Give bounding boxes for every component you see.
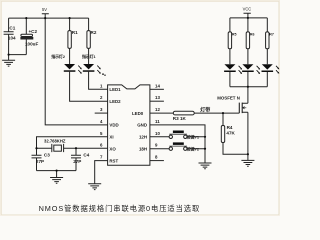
wire pin9 to button S2 <box>150 148 169 150</box>
svg-text:GND: GND <box>137 123 147 128</box>
power 5V symbol <box>42 14 49 18</box>
svg-text:NMOS管数据规格门串联电源0电压适当选取: NMOS管数据规格门串联电源0电压适当选取 <box>39 204 201 213</box>
svg-text:R6: R6 <box>250 32 255 36</box>
node crystal left <box>35 147 37 149</box>
resistor R1 <box>68 18 71 64</box>
pushbutton S2 <box>169 142 187 150</box>
pin numbers right <box>155 83 160 159</box>
resistor R6 <box>246 18 249 64</box>
wire LED bottom rail <box>230 86 267 88</box>
pin 13 stub <box>150 100 164 102</box>
wire crystal rail XO pin6 <box>37 147 108 149</box>
svg-text:C4: C4 <box>83 153 89 158</box>
wire pin11 to ground rail <box>150 125 205 163</box>
chip pin names left <box>109 87 121 163</box>
wire crystal ground rail <box>37 171 77 178</box>
power VCC symbol <box>244 13 251 18</box>
wire RST pin7 to ground <box>95 161 108 184</box>
node source R4 ground <box>247 153 249 155</box>
wire VCC rail <box>230 17 267 19</box>
resistor R3 <box>173 111 194 115</box>
chip pin names right <box>132 111 147 152</box>
svg-text:XI: XI <box>109 135 113 140</box>
node crystal C4 <box>75 147 77 149</box>
pin 14 stub <box>150 88 164 90</box>
wire LED D3 to bottom rail <box>229 72 231 87</box>
node VCC rail <box>247 17 249 19</box>
svg-text:VDD: VDD <box>109 123 118 128</box>
wire source vertical <box>247 112 249 154</box>
svg-text:LED2: LED2 <box>109 99 121 104</box>
mark U1 <box>102 73 106 75</box>
svg-text:R4: R4 <box>227 125 233 130</box>
wire LED D5 to bottom rail <box>266 72 268 87</box>
ground (crystal) <box>50 178 63 184</box>
resistor R4 <box>221 126 224 143</box>
pin 8 stub <box>150 160 164 162</box>
svg-text:104: 104 <box>8 35 16 40</box>
wire R3 to gate <box>194 112 239 114</box>
resistor R7 <box>266 18 269 64</box>
svg-text:R2: R2 <box>91 30 97 35</box>
LED D4 <box>242 64 260 74</box>
capacitor C2 <box>21 18 33 55</box>
wire button S1 to ground rail <box>187 136 205 138</box>
svg-text:18H: 18H <box>139 146 147 151</box>
svg-text:R5: R5 <box>232 32 237 36</box>
svg-text:27P: 27P <box>36 159 44 164</box>
capacitor C1 <box>4 18 14 55</box>
svg-text:C1: C1 <box>9 25 15 30</box>
wire LED D2 cathode to pin1 <box>89 72 108 90</box>
ground (C1 C2) <box>2 55 15 67</box>
svg-text:VCC: VCC <box>243 6 252 11</box>
crystal Y1 <box>52 144 64 152</box>
svg-text:12H: 12H <box>139 135 147 140</box>
chip U1 body <box>108 85 150 165</box>
ground (RST) <box>88 184 101 190</box>
node drain rail <box>247 86 249 88</box>
svg-text:MOSFET N: MOSFET N <box>217 96 240 101</box>
pin 3 stub <box>95 112 108 114</box>
svg-text:12: 12 <box>155 107 160 112</box>
LED D3 <box>224 64 242 74</box>
pin numbers left <box>100 83 103 159</box>
wire drain vertical <box>247 87 249 104</box>
capacitor C3 <box>32 155 42 170</box>
LED D1 indicator <box>64 64 82 74</box>
svg-text:按键Y1: 按键Y1 <box>187 134 200 139</box>
svg-text:13: 13 <box>155 95 160 100</box>
LED D5 <box>262 64 280 73</box>
wire R4 bottom to source node <box>223 143 248 155</box>
pushbutton S1 <box>169 131 187 139</box>
svg-text:27P: 27P <box>73 159 81 164</box>
wire LED D4 to bottom rail <box>247 72 249 87</box>
wire pin12 to R3 <box>150 112 173 114</box>
ground (MOSFET source) <box>241 154 254 166</box>
svg-text:R3 1K: R3 1K <box>173 116 187 121</box>
node rail-5V <box>44 17 46 19</box>
svg-text:+C2: +C2 <box>29 29 38 34</box>
svg-text:14: 14 <box>155 83 160 88</box>
svg-text:LED0: LED0 <box>132 111 144 116</box>
node button S1 ground <box>204 136 206 138</box>
svg-text:指示灯2: 指示灯2 <box>51 53 65 59</box>
svg-text:5V: 5V <box>42 7 47 12</box>
svg-text:灯带: 灯带 <box>200 107 210 114</box>
svg-text:指示灯1: 指示灯1 <box>82 53 96 59</box>
node crystal ground <box>56 170 58 172</box>
wire C1-C2 join <box>9 54 27 56</box>
svg-text:32.768KHZ: 32.768KHZ <box>44 138 66 143</box>
svg-text:XO: XO <box>109 146 116 151</box>
svg-text:R7: R7 <box>269 32 274 36</box>
svg-text:RST: RST <box>109 158 118 163</box>
wire pin10 to button S1 <box>150 136 169 138</box>
svg-text:LED1: LED1 <box>109 87 121 92</box>
svg-text:11: 11 <box>155 119 160 124</box>
capacitor C4 <box>71 148 81 170</box>
LED D2 indicator <box>83 64 101 74</box>
svg-text:C3: C3 <box>44 153 50 158</box>
node button S2 ground <box>204 148 206 150</box>
ground (buttons) <box>199 163 212 169</box>
resistor R2 <box>87 18 90 64</box>
wire XI pin5 <box>37 137 108 155</box>
wire LED D1 cathode to pin2 <box>70 72 108 101</box>
border frame <box>0 0 280 1</box>
svg-text:100uF: 100uF <box>25 41 38 46</box>
svg-text:R1: R1 <box>72 30 78 35</box>
node C1-C2 <box>8 54 10 56</box>
wire 5V rail <box>9 17 89 19</box>
wire 5V to VDD <box>45 18 107 125</box>
resistor R5 <box>228 18 231 64</box>
node R4 gate <box>222 112 224 114</box>
svg-text:按键Y2: 按键Y2 <box>187 146 200 151</box>
transistor Q1 MOSFET N <box>239 103 248 114</box>
wire button S2 to ground rail <box>187 148 205 150</box>
svg-text:47K: 47K <box>226 131 235 136</box>
wire R4 top <box>222 113 224 125</box>
node rail-R1 <box>69 17 71 19</box>
node rail-C2 <box>25 17 27 19</box>
svg-text:10: 10 <box>155 131 160 136</box>
